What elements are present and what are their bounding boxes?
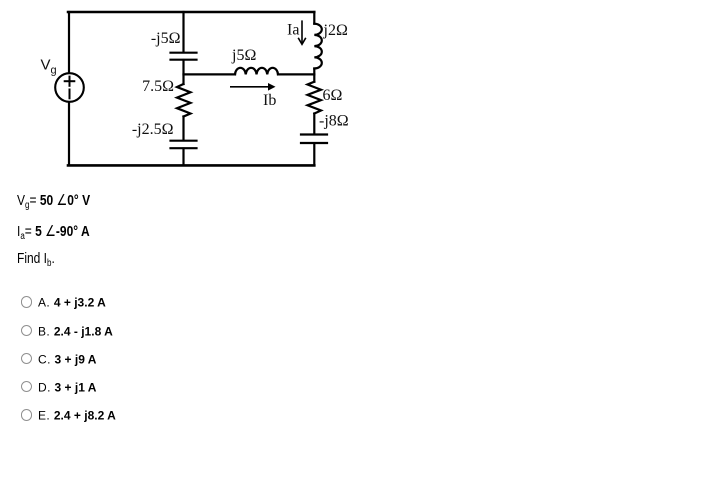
wire C1 to node <box>182 60 184 84</box>
voltage source Vg <box>55 73 84 102</box>
inductor L2 j2 <box>314 24 322 69</box>
svg-text:-j2.5Ω: -j2.5Ω <box>132 121 174 138</box>
node wire horizontal <box>184 73 236 75</box>
svg-text:Vg: Vg <box>41 57 57 77</box>
question text <box>17 191 108 212</box>
svg-text:j2Ω: j2Ω <box>323 22 348 39</box>
wire top <box>68 11 314 14</box>
inductor L1 j5 <box>235 68 278 75</box>
svg-text:6Ω: 6Ω <box>323 87 343 104</box>
wire bottom <box>68 164 314 167</box>
svg-text:j5Ω: j5Ω <box>231 47 256 64</box>
wire left lower <box>68 103 70 166</box>
capacitor C3 -j8 <box>301 133 327 135</box>
current arrow Ia <box>298 20 306 44</box>
wire R2 to C3 <box>313 114 315 135</box>
svg-text:Ib: Ib <box>263 92 276 109</box>
options <box>21 295 106 307</box>
wire C3 to bottom <box>313 143 315 165</box>
wire L2 to node <box>313 69 315 82</box>
wire right upper <box>313 12 315 24</box>
wire R1 to C2 <box>182 117 184 141</box>
resistor R2 6 <box>308 82 322 114</box>
svg-text:Ia: Ia <box>287 22 299 39</box>
svg-text:-j5Ω: -j5Ω <box>151 30 181 47</box>
svg-text:-j8Ω: -j8Ω <box>319 113 349 130</box>
current arrow Ib <box>230 83 276 91</box>
wire middle branch upper <box>182 12 184 52</box>
resistor R1 7.5 <box>177 84 191 117</box>
capacitor C1 -j5 <box>171 52 197 54</box>
capacitor C2 -j2.5 <box>171 140 197 142</box>
wire left upper <box>68 12 70 73</box>
svg-text:7.5Ω: 7.5Ω <box>142 78 174 95</box>
wire C2 to bottom <box>182 149 184 166</box>
